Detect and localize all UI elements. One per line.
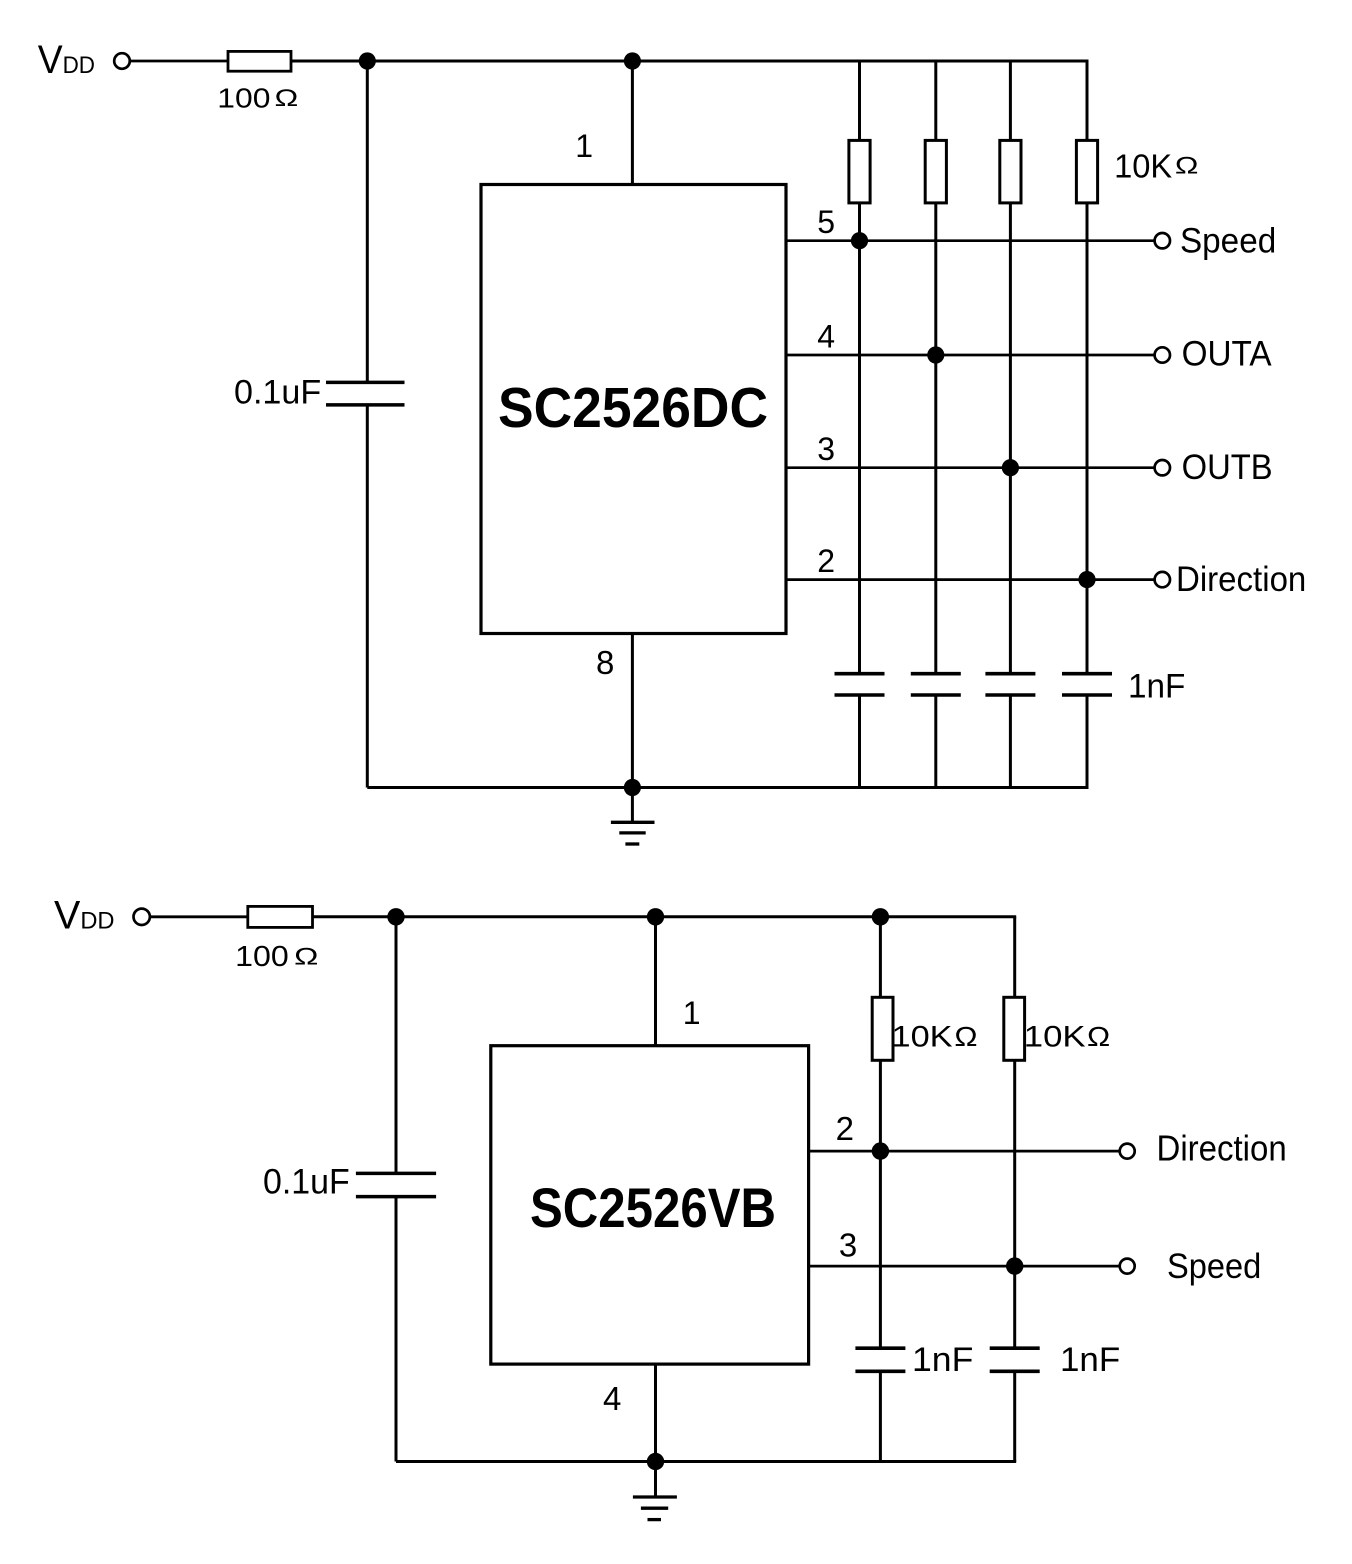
svg-text:2: 2 <box>836 1110 854 1147</box>
svg-text:Direction: Direction <box>1157 1128 1287 1169</box>
svg-text:10K: 10K <box>1024 1021 1086 1054</box>
wire column A middle <box>879 1060 882 1348</box>
wire column 4 lower <box>1086 695 1089 788</box>
terminal Direction open circle (bottom) <box>1120 1144 1135 1159</box>
terminal OUTB open circle <box>1155 460 1170 475</box>
node junction pin3/R8 <box>1006 1257 1023 1274</box>
capacitor C1 0.1uF plates (top) <box>326 381 405 385</box>
wire VDD terminal to R1 <box>130 60 228 63</box>
svg-text:SC2526DC: SC2526DC <box>498 376 768 440</box>
wire column B lower <box>1013 1371 1016 1461</box>
svg-text:Direction: Direction <box>1176 560 1306 599</box>
label 10K ohm (top) <box>1114 147 1198 184</box>
wire pin 5 line <box>786 239 1155 242</box>
capacitor C5 1nF plates <box>1062 672 1112 676</box>
svg-text:100: 100 <box>235 941 289 973</box>
terminal VDD (top) open circle <box>114 53 130 69</box>
wire column B upper <box>1013 917 1016 998</box>
capacitor C3 1nF plates <box>911 672 961 676</box>
svg-text:Ω: Ω <box>294 944 318 971</box>
wire column 4 middle <box>1086 203 1089 674</box>
terminal Speed open circle <box>1155 233 1170 248</box>
wire left vertical lower (C6 to ground rail) <box>395 1197 398 1462</box>
wire pin 3 line <box>786 466 1155 469</box>
svg-text:OUTA: OUTA <box>1182 335 1273 374</box>
op-amp U1 SC2526DC box <box>481 185 786 634</box>
ground symbol (bottom circuit) <box>633 1462 677 1520</box>
wire column 2 middle <box>934 203 937 674</box>
wire column A upper <box>879 917 882 998</box>
node junction pin1 <box>624 52 641 69</box>
svg-text:1nF: 1nF <box>1060 1341 1120 1379</box>
wire bottom ground rail (bottom circuit) <box>396 1460 1016 1463</box>
terminal Speed open circle (bottom) <box>1120 1259 1135 1274</box>
node junction pin2/R5 <box>1078 571 1095 588</box>
wire column A lower <box>879 1371 882 1461</box>
wire pin 1 stem (top IC) <box>631 61 634 185</box>
wire top rail VDD <box>291 60 1089 63</box>
wire VDD terminal to R6 <box>150 915 248 918</box>
svg-text:3: 3 <box>817 431 835 467</box>
wire pin 2 line <box>786 578 1155 581</box>
svg-text:SC2526VB: SC2526VB <box>530 1176 776 1239</box>
svg-text:1: 1 <box>683 995 701 1031</box>
node junction VDD/C1 <box>359 52 376 69</box>
node junction pin8/ground <box>624 779 641 796</box>
terminal VDD (bottom) open circle <box>134 909 150 925</box>
svg-text:10K: 10K <box>892 1021 953 1054</box>
terminal Direction open circle (top) <box>1155 572 1170 587</box>
svg-text:Ω: Ω <box>1175 153 1199 180</box>
wire column 1 lower <box>858 695 861 788</box>
resistor R6 body 100 ohm (bottom) <box>248 906 313 927</box>
label 100 ohm (bottom) <box>235 941 318 973</box>
resistor R8 10K body <box>1004 997 1025 1060</box>
wire bottom ground rail (top circuit) <box>367 786 1088 789</box>
resistor R4 10K body <box>1000 140 1021 203</box>
wire column 3 middle <box>1009 203 1012 674</box>
node junction VDD/C6 <box>387 908 404 925</box>
wire pin 1 stem (bottom IC) <box>654 917 657 1046</box>
node junction pin5/R2 <box>851 232 868 249</box>
node junction R7 column <box>872 908 889 925</box>
op-amp U2 SC2526VB box <box>491 1046 809 1364</box>
capacitor C2 1nF plates <box>835 672 885 676</box>
svg-text:Speed: Speed <box>1180 222 1276 261</box>
svg-text:Ω: Ω <box>954 1021 977 1052</box>
svg-text:5: 5 <box>817 204 835 240</box>
resistor R2 10K body <box>849 140 870 203</box>
wire pin 2 line (bottom IC) <box>809 1150 1120 1153</box>
resistor R5 10K body <box>1076 140 1097 203</box>
node junction pin1 (bottom) <box>647 908 664 925</box>
wire column 2 lower <box>934 695 937 788</box>
wire left vertical lower (C1 to ground rail) <box>366 405 369 788</box>
wire left vertical upper (to C1) <box>366 61 369 382</box>
wire pin 3 line (bottom IC) <box>809 1265 1120 1268</box>
wire top rail VDD (bottom circuit) <box>313 915 1017 918</box>
svg-text:1: 1 <box>575 128 593 164</box>
svg-text:Ω: Ω <box>1087 1021 1110 1052</box>
net label VDD (bottom) <box>54 894 115 938</box>
svg-text:3: 3 <box>839 1227 857 1264</box>
wire column B middle <box>1013 1060 1016 1348</box>
label 10K ohm (R7) <box>892 1021 978 1054</box>
wire column 1 upper <box>858 61 861 140</box>
label 100 ohm (top) <box>217 83 298 114</box>
capacitor C7 1nF plates <box>855 1346 905 1350</box>
node junction pin4/ground (bottom) <box>647 1453 664 1470</box>
capacitor C6 0.1uF plates (bottom) <box>356 1172 436 1176</box>
wire column 3 lower <box>1009 695 1012 788</box>
resistor R1 body 100 ohm (top) <box>228 51 291 71</box>
wire left vertical upper (to C6) <box>395 917 398 1174</box>
wire column 1 middle <box>858 203 861 674</box>
svg-text:2: 2 <box>817 543 835 579</box>
svg-text:1nF: 1nF <box>912 1341 973 1379</box>
node junction pin2/R7 <box>872 1142 889 1159</box>
svg-text:4: 4 <box>603 1380 621 1417</box>
svg-text:Ω: Ω <box>275 85 299 112</box>
terminal OUTA open circle <box>1155 347 1170 362</box>
capacitor C8 1nF plates <box>990 1346 1040 1350</box>
resistor R7 10K body <box>872 997 893 1060</box>
wire pin 4 line <box>786 354 1155 357</box>
svg-text:OUTB: OUTB <box>1182 448 1273 487</box>
wire pin 8 stem <box>631 634 634 788</box>
svg-text:8: 8 <box>596 644 614 681</box>
svg-text:0.1uF: 0.1uF <box>234 374 321 412</box>
svg-text:4: 4 <box>817 318 835 354</box>
wire column 3 upper <box>1009 61 1012 140</box>
resistor R3 10K body <box>925 140 946 203</box>
net label VDD (top) <box>38 38 95 82</box>
label 10K ohm (R8) <box>1024 1021 1110 1054</box>
svg-text:0.1uF: 0.1uF <box>263 1163 350 1202</box>
node junction pin4/R3 <box>927 346 944 363</box>
ground symbol (top circuit) <box>611 788 655 845</box>
wire column 2 upper <box>934 61 937 140</box>
svg-text:Speed: Speed <box>1167 1247 1261 1286</box>
svg-text:1nF: 1nF <box>1128 667 1185 705</box>
svg-text:10K: 10K <box>1114 147 1172 184</box>
wire column 4 upper <box>1086 61 1089 140</box>
capacitor C4 1nF plates <box>985 672 1035 676</box>
svg-text:100: 100 <box>217 83 270 114</box>
wire pin 4 stem (bottom IC) <box>654 1364 657 1461</box>
node junction pin3/R4 <box>1002 459 1019 476</box>
